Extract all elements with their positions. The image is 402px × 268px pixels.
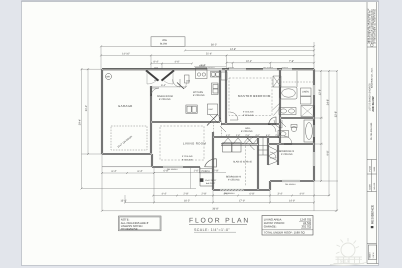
- svg-text:GARAGE:: GARAGE:: [264, 225, 277, 229]
- svg-text:36'-2": 36'-2": [211, 44, 217, 47]
- svg-text:12x12 POST: 12x12 POST: [205, 179, 217, 182]
- svg-text:3068: 3068: [154, 79, 158, 82]
- svg-text:DATE: DATE: [368, 183, 371, 189]
- svg-text:36'-8": 36'-8": [212, 208, 218, 211]
- svg-text:MLS: MLS: [340, 259, 350, 264]
- svg-text:3'-4": 3'-4": [278, 193, 283, 196]
- svg-text:2'-8": 2'-8": [214, 170, 219, 173]
- svg-text:GARAGE: GARAGE: [118, 104, 132, 108]
- svg-text:302 SQ: 302 SQ: [302, 225, 312, 229]
- svg-text:RANGE: RANGE: [199, 65, 206, 68]
- svg-text:BALDWIN CO., ALA.: BALDWIN CO., ALA.: [370, 67, 373, 88]
- svg-text:13'-4": 13'-4": [120, 200, 126, 203]
- svg-text:DBL 3040SH: DBL 3040SH: [224, 192, 235, 195]
- svg-text:4'-6": 4'-6": [175, 61, 180, 64]
- svg-text:1 OF 4: 1 OF 4: [372, 253, 375, 259]
- svg-text:9' CEILING: 9' CEILING: [228, 179, 240, 182]
- svg-text:9' CEILING: 9' CEILING: [243, 110, 254, 113]
- svg-text:OF THE DESIGNER. ALL RIGHTS RS: OF THE DESIGNER. ALL RIGHTS RSVD: [374, 8, 377, 44]
- svg-text:9'-8": 9'-8": [326, 150, 329, 155]
- svg-text:LIVING ROOM: LIVING ROOM: [183, 142, 206, 146]
- svg-text:SLAB 45 SLAB 45: SLAB 45 SLAB 45: [233, 161, 252, 164]
- svg-text:BLOW: BLOW: [160, 43, 168, 46]
- svg-text:PH 251-555-0100: PH 251-555-0100: [370, 122, 373, 140]
- svg-text:14'-0": 14'-0": [289, 200, 295, 203]
- svg-text:DBL 3040SH: DBL 3040SH: [285, 183, 296, 186]
- svg-text:6'-4": 6'-4": [112, 170, 117, 173]
- svg-text:6'-4": 6'-4": [138, 170, 143, 173]
- svg-text:MASTER BEDROOM: MASTER BEDROOM: [238, 94, 271, 98]
- svg-text:8' CEILING: 8' CEILING: [193, 94, 205, 97]
- svg-text:8' CEILING: 8' CEILING: [241, 130, 253, 133]
- svg-text:PLAN: PLAN: [368, 166, 371, 172]
- svg-text:RESIDENCE: RESIDENCE: [371, 204, 375, 224]
- svg-text:12'-8": 12'-8": [318, 89, 321, 95]
- svg-text:29'-4": 29'-4": [79, 119, 82, 125]
- svg-text:6'-8": 6'-8": [250, 193, 255, 196]
- svg-text:8' CEILING: 8' CEILING: [243, 114, 254, 117]
- svg-text:4'-0": 4'-0": [300, 193, 305, 196]
- svg-text:DBL 3040SH: DBL 3040SH: [167, 168, 178, 171]
- svg-text:21'-4": 21'-4": [206, 53, 212, 56]
- svg-text:OTHERWISE: OTHERWISE: [121, 227, 138, 231]
- svg-text:WH: WH: [106, 76, 110, 79]
- svg-text:32'-8": 32'-8": [334, 111, 337, 117]
- svg-text:4x4 POST: 4x4 POST: [206, 182, 216, 185]
- svg-text:JOE BLOW: JOE BLOW: [371, 96, 375, 112]
- svg-text:17'-0": 17'-0": [239, 200, 245, 203]
- svg-text:BEDROOM #2: BEDROOM #2: [226, 176, 242, 179]
- svg-text:3068: 3068: [186, 80, 190, 83]
- svg-text:HALL: HALL: [245, 127, 251, 130]
- svg-text:14'-8": 14'-8": [230, 48, 236, 51]
- svg-text:8' CEILING: 8' CEILING: [159, 98, 171, 101]
- svg-text:SHEET: SHEET: [369, 251, 372, 258]
- svg-text:21'-0": 21'-0": [85, 105, 88, 111]
- svg-text:DINING ROOM: DINING ROOM: [157, 95, 173, 98]
- svg-text:8'-4": 8'-4": [154, 61, 159, 64]
- svg-text:1'-6": 1'-6": [194, 170, 199, 173]
- svg-text:SCALE: 1/4"=1'-0": SCALE: 1/4"=1'-0": [194, 228, 230, 232]
- svg-text:24'-8": 24'-8": [326, 99, 329, 105]
- svg-text:6'-4": 6'-4": [161, 84, 166, 87]
- svg-text:7'-8": 7'-8": [289, 60, 294, 63]
- svg-text:16'-2": 16'-2": [184, 200, 190, 203]
- svg-text:2'-8": 2'-8": [202, 193, 207, 196]
- svg-text:2'-8": 2'-8": [184, 193, 189, 196]
- svg-text:9' CEILING: 9' CEILING: [182, 155, 193, 158]
- svg-text:10'-4": 10'-4": [246, 60, 252, 63]
- svg-text:PORCH: PORCH: [202, 170, 211, 173]
- svg-text:TOTAL UNDER ROOF: 1589 SQ: TOTAL UNDER ROOF: 1589 SQ: [264, 231, 306, 235]
- svg-text:BEDROOM #3: BEDROOM #3: [279, 150, 295, 153]
- svg-text:4'-4": 4'-4": [162, 193, 167, 196]
- svg-text:LINEN: LINEN: [302, 91, 309, 94]
- svg-text:KITCHEN: KITCHEN: [193, 91, 203, 94]
- svg-text:6.14.21: 6.14.21: [373, 182, 376, 190]
- svg-text:9' CEILING: 9' CEILING: [281, 153, 293, 156]
- svg-text:FLOOR PLAN: FLOOR PLAN: [189, 218, 250, 225]
- svg-text:14'-10": 14'-10": [122, 53, 130, 56]
- svg-text:8' CEILING: 8' CEILING: [182, 159, 193, 162]
